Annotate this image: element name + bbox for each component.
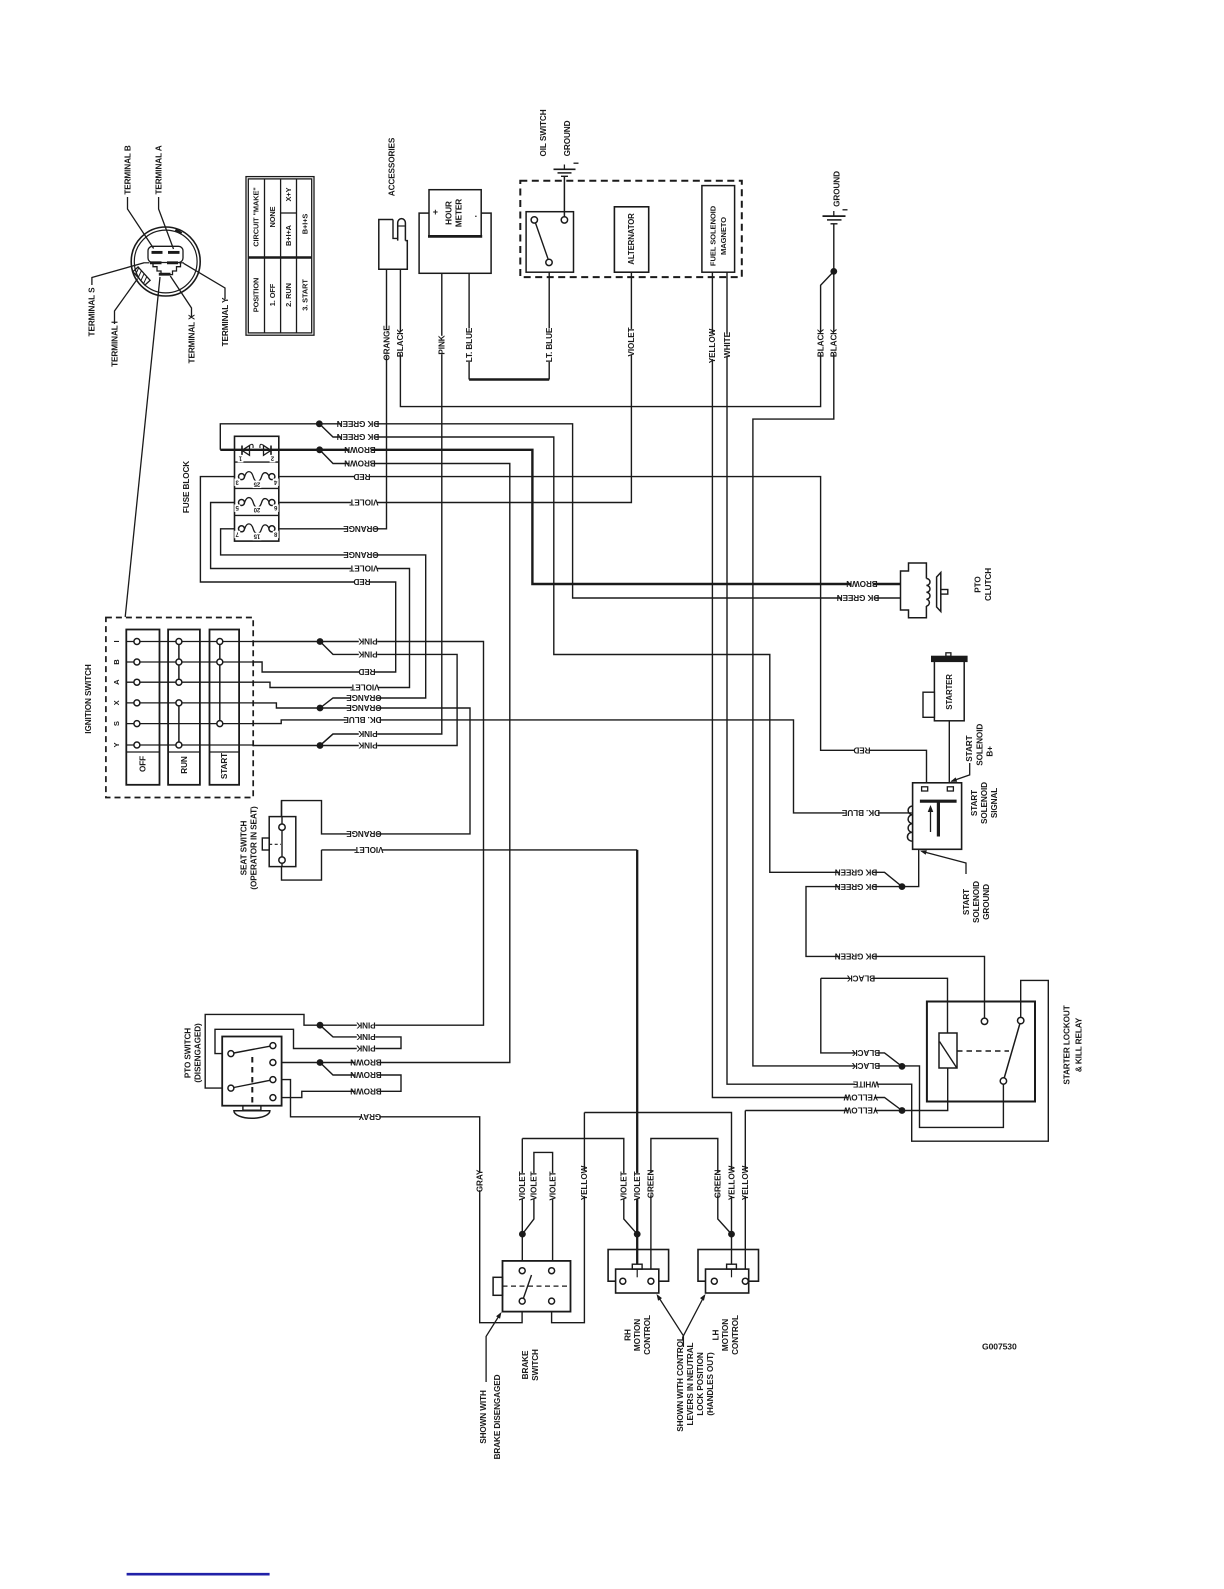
label FUEL SOLENOID MAGNETO [709,205,718,266]
label START SOLENOID SIGNAL [970,790,979,816]
wire BROWN fuse block to PTO clutch [220,450,900,584]
svg-text:BLACK: BLACK [852,1048,880,1057]
svg-text:MOTION: MOTION [721,1319,730,1351]
svg-text:HOUR: HOUR [444,201,453,225]
leader TERMINAL X [170,276,191,317]
fuse value 25 [253,480,262,488]
svg-text:VIOLET: VIOLET [354,845,383,854]
svg-text:RED: RED [353,577,370,586]
svg-text:Y: Y [112,742,121,747]
svg-text:VIOLET: VIOLET [518,1171,527,1200]
wire PINK ignition I to PTO switch [205,642,483,1089]
svg-text:(HANDLES OUT): (HANDLES OUT) [706,1352,715,1416]
svg-text:TERMINAL X: TERMINAL X [187,314,196,364]
wire BROWN PTO switch splice [273,1063,401,1098]
seat switch terminals [279,824,285,830]
junction dot DK GREEN solenoid ground [899,883,906,890]
label START [220,753,229,779]
wire YELLOW magneto to kill relay [712,272,902,1110]
ignition switch row lines [126,641,253,643]
pin 1 [238,455,244,463]
svg-text:SOLENOID: SOLENOID [975,724,984,766]
svg-text:RED: RED [853,746,870,755]
ignition switch position table [246,177,314,336]
svg-text:DK GREEN: DK GREEN [835,952,878,961]
PTO clutch coil [926,579,930,607]
svg-text:GRAY: GRAY [475,1169,484,1192]
kill relay dashed actuator link [957,1050,1009,1052]
wire DK GREEN to start solenoid ground [319,424,902,887]
svg-text:START: START [965,735,974,761]
kill relay switch arm [1004,1024,1020,1078]
svg-text:SHOWN WITH CONTROL: SHOWN WITH CONTROL [676,1336,685,1432]
wire VIOLET brake switch riser [521,1139,523,1271]
svg-text:TERMINAL Y: TERMINAL Y [221,297,230,346]
svg-text:BROWN: BROWN [344,459,376,468]
PTO clutch rotor [937,573,941,612]
svg-text:YELLOW: YELLOW [741,1165,750,1200]
table divider thick [248,256,311,259]
label ALTERNATOR [627,213,636,265]
label GROUND (battery) [832,171,841,207]
svg-text:RUN: RUN [180,756,189,774]
svg-text:YELLOW: YELLOW [708,328,717,363]
leader TERMINAL S [92,263,145,285]
svg-text:25: 25 [253,480,260,486]
svg-text:WHITE: WHITE [723,331,732,358]
wire PINK splice I to Y [253,642,457,746]
svg-text:PTO: PTO [973,576,982,593]
label START SOLENOID GROUND [962,889,971,915]
svg-text:SHOWN WITH: SHOWN WITH [479,1390,488,1444]
table text 1.OFF row [268,206,277,227]
oil pressure switch [526,212,573,273]
pin 3 [234,478,240,486]
starter motor [934,661,964,721]
wire color labels right column [846,579,878,589]
label PTO CLUTCH [973,576,982,593]
svg-text:IGNITION SWITCH: IGNITION SWITCH [84,664,93,734]
svg-text:VIOLET: VIOLET [627,327,636,356]
brake switch plunger tab [493,1277,502,1295]
wire DK GREEN fuse 1 to PTO clutch [220,424,900,598]
ignition switch key connector (rear view) [131,227,200,296]
svg-text:VIOLET: VIOLET [349,498,378,507]
svg-text:CONTROL: CONTROL [731,1315,740,1355]
pin 6 [273,504,279,512]
seat switch plunger tab [262,838,269,850]
fuse 25A [245,472,270,482]
svg-text:START: START [970,790,979,816]
svg-text:FUSE BLOCK: FUSE BLOCK [182,461,191,513]
table text 3.START row [301,214,310,235]
svg-text:BLACK: BLACK [852,1061,880,1070]
svg-text:PINK: PINK [358,741,377,750]
svg-text:PINK: PINK [356,1032,375,1041]
label PTO SWITCH (DISENGAGED) [183,1028,192,1078]
leader TERMINAL A [159,197,174,249]
LH motion control switch [698,1250,759,1282]
svg-text:PINK: PINK [438,335,447,354]
RUN terminals [176,639,182,645]
junction dot BROWN [316,446,323,453]
svg-text:OFF: OFF [139,756,148,772]
svg-text:TERMINAL S: TERMINAL S [88,287,97,337]
svg-text:VIOLET: VIOLET [349,564,378,573]
svg-text:3. START: 3. START [301,279,310,311]
svg-text:.: . [475,209,477,219]
fuse 15A [245,524,270,534]
svg-text:ORANGE: ORANGE [382,325,391,361]
engine dashed box (oil switch / alternator / magneto) [520,181,742,277]
label RH MOTION CONTROL [623,1329,632,1341]
ignition RUN column [168,630,200,785]
svg-text:CLUTCH: CLUTCH [984,568,993,601]
svg-text:BLACK: BLACK [830,329,839,357]
svg-text:ACCESSORIES: ACCESSORIES [388,137,397,196]
label START SOLENOID B+ [965,735,974,761]
svg-text:GREEN: GREEN [647,1170,656,1199]
svg-text:PINK: PINK [356,1020,375,1029]
start solenoid arrow [930,809,932,832]
svg-text:YELLOW: YELLOW [727,1165,736,1200]
junction dot BLACK ground [830,268,837,275]
svg-text:GRAY: GRAY [358,1112,381,1121]
svg-text:POSITION: POSITION [252,278,261,313]
svg-text:SEAT SWITCH: SEAT SWITCH [239,820,248,875]
START terminals [217,639,223,645]
start solenoid coil [907,806,912,841]
svg-text:LOCK POSITION: LOCK POSITION [696,1352,705,1415]
svg-text:YELLOW: YELLOW [580,1165,589,1200]
wire BROWN to PTO switch [273,450,510,1063]
hour meter housing [419,213,491,273]
svg-text:GROUND: GROUND [832,171,841,207]
table X+Y cell divider [281,212,297,214]
svg-text:BROWN: BROWN [350,1070,382,1079]
svg-text:RED: RED [353,472,370,481]
svg-text:BLACK: BLACK [847,974,875,983]
svg-text:SIGNAL: SIGNAL [990,788,999,818]
junction dot VIOLET RH [634,1231,641,1238]
svg-text:TERMINAL A: TERMINAL A [154,145,163,194]
svg-text:DK GREEN: DK GREEN [337,432,380,441]
svg-text:B+: B+ [986,746,995,757]
diode D1 [242,446,250,456]
svg-text:VIOLET: VIOLET [350,683,379,692]
label TERMINAL B [123,145,132,195]
svg-text:+: + [433,207,438,217]
svg-text:ORANGE: ORANGE [346,693,382,702]
svg-text:B: B [112,659,121,665]
svg-text:20: 20 [253,506,260,512]
junction dot YELLOW relay [899,1107,906,1114]
svg-text:B+I+A: B+I+A [284,224,293,246]
junction dot VIOLET brake [519,1231,526,1238]
brake switch box [503,1261,571,1312]
wire WHITE magneto to kill relay [727,272,1048,1141]
brake switch dashed line [503,1285,571,1287]
svg-text:PINK: PINK [358,637,377,646]
svg-text:MAGNETO: MAGNETO [719,217,728,255]
junction dot YELLOW LH [728,1231,735,1238]
svg-text:X: X [112,700,121,705]
wire VIOLET alternator to fuse 6 [272,272,632,502]
junction dot PINK PTO [317,1022,324,1029]
svg-text:VIOLET: VIOLET [530,1171,539,1200]
svg-text:BLACK: BLACK [396,329,405,357]
wire BLACK accessories to ground [400,269,833,406]
connector terminal slots (thick dashes) [152,251,163,254]
RUN contact bar X-Y [178,703,180,745]
junction dot BROWN PTO [317,1059,324,1066]
wire RED fuse 4 to start solenoid B+ [272,477,927,788]
pin 2 [270,455,276,463]
svg-text:CIRCUIT "MAKE": CIRCUIT "MAKE" [252,187,261,247]
svg-text:DK GREEN: DK GREEN [337,419,380,428]
hour meter box [429,190,481,237]
wire color labels left column [337,419,380,429]
wire color labels vertical top [382,325,392,361]
svg-text:STARTER: STARTER [945,674,954,710]
svg-text:ORANGE: ORANGE [343,550,379,559]
kill relay coil [939,1033,957,1068]
OFF terminals [134,639,140,645]
svg-text:GROUND: GROUND [982,884,991,920]
wire DK GREEN start solenoid ground to kill relay [806,849,985,1018]
label HOUR METER [444,201,453,225]
svg-text:(OPERATOR IN SEAT): (OPERATOR IN SEAT) [249,806,258,890]
svg-text:FUEL SOLENOID: FUEL SOLENOID [709,205,718,266]
svg-text:1. OFF: 1. OFF [268,283,277,306]
svg-text:SWITCH: SWITCH [531,1349,540,1381]
RH motion control terminals [620,1278,626,1284]
svg-text:PINK: PINK [358,729,377,738]
svg-text:B+I+S: B+I+S [301,214,310,235]
svg-text:ORANGE: ORANGE [346,829,382,838]
wire PINK Y to hour meter splice [320,734,333,746]
svg-text:X+Y: X+Y [284,187,293,201]
label FUSE BLOCK [182,461,191,513]
svg-text:BROWN: BROWN [344,445,376,454]
accessories connector [379,220,408,270]
svg-text:DK. BLUE: DK. BLUE [841,808,880,817]
wire BLACK ground to kill relay switch [753,224,1004,1128]
oil switch ground symbol [554,168,576,170]
svg-text:CONTROL: CONTROL [643,1315,652,1355]
oil switch ground wire [563,176,565,216]
leader TERMINAL B [128,197,154,249]
leader SHOWN WITH BRAKE DISENGAGED [486,1314,500,1383]
diode D2 [264,446,272,456]
PTO switch dashed center line [251,1057,253,1103]
pin 8 [273,530,279,538]
ignition START column [210,630,240,785]
svg-text:S: S [112,721,121,726]
oil switch terminals [531,217,537,223]
svg-text:G007530: G007530 [982,1342,1017,1352]
hour meter thick base [428,235,482,238]
label TERMINAL A [154,145,163,194]
svg-text:RH: RH [623,1329,632,1341]
svg-text:YELLOW: YELLOW [843,1093,878,1102]
wire through diode section [235,449,279,451]
svg-text:PINK: PINK [358,650,377,659]
PTO clutch body [901,563,927,618]
svg-text:VIOLET: VIOLET [548,1171,557,1200]
START contact bar I-S [219,642,221,724]
label ACCESSORIES [387,137,397,196]
junction dot DK GREEN [316,420,323,427]
svg-text:GREEN: GREEN [714,1170,723,1199]
svg-text:DK GREEN: DK GREEN [835,882,878,891]
svg-text:START: START [962,889,971,915]
kill relay terminals [981,1018,987,1024]
terminal letters I B A X S Y [112,640,121,642]
svg-text:I: I [112,640,121,642]
leader TERMINAL Y [184,263,226,299]
wire PINK PTO switch splice [215,1025,401,1053]
connector index notch [176,230,182,234]
label STARTER [945,674,954,710]
svg-text:SOLENOID: SOLENOID [980,782,989,824]
wire color labels vertical bottom [475,1169,485,1192]
label OIL SWITCH [539,109,548,156]
junction dot PINK Y [317,742,324,749]
svg-text:OIL SWITCH: OIL SWITCH [539,109,548,156]
leader TERMINAL I [115,279,138,324]
label TERMINAL I [110,321,119,367]
svg-text:DK GREEN: DK GREEN [835,868,878,877]
fuse block [235,436,279,541]
ignition switch dashed box [106,618,253,798]
svg-text:PINK: PINK [356,1044,375,1053]
label SHOWN WITH BRAKE DISENGAGED [479,1390,488,1444]
wire ORANGE accessories to fuse 8 [272,269,387,529]
svg-text:BROWN: BROWN [350,1058,382,1067]
oil switch contact arm [536,223,549,259]
wire DK. BLUE ignition S to start solenoid [253,720,912,813]
svg-text:STARTER LOCKOUT: STARTER LOCKOUT [1063,1005,1072,1084]
seat switch lower bracket [282,850,322,880]
wire PINK hour meter to ignition [320,273,442,745]
svg-text:TERMINAL B: TERMINAL B [123,145,132,195]
wire BLACK kill relay coil [821,978,948,1033]
wire VIOLET brake splice [522,1152,552,1270]
junction dot BLACK relay [899,1063,906,1070]
label OFF [139,756,148,772]
pin 4 [273,478,279,486]
starter solenoid tab [923,692,934,717]
wire VIOLET fuse 5 to ignition A [211,503,410,688]
table text 2.RUN row [284,187,293,201]
svg-text:BROWN: BROWN [350,1087,382,1096]
label RUN [180,756,189,774]
fuse value 15 [253,532,262,540]
alternator box [614,207,648,272]
table text POSITION column [252,187,261,247]
svg-text:A: A [112,679,121,685]
label LH MOTION CONTROL [711,1329,720,1340]
PTO switch box [222,1037,281,1106]
leader SHOWN WITH CONTROL LEVERS [658,1296,684,1348]
label SHOWN WITH CONTROL LEVERS IN NEUTRAL LOCK POSITION (HANDLES OUT) [676,1336,685,1432]
pin 5 [234,504,240,512]
start solenoid terminals [922,787,928,791]
PTO switch contact arm 1 [234,1046,270,1053]
wire VIOLET seat switch to RH motion control [636,850,638,1264]
leader from connector to ignition switch box [125,277,160,617]
svg-text:DK. BLUE: DK. BLUE [343,715,382,724]
svg-text:MOTION: MOTION [633,1319,642,1351]
PTO switch right terminals [270,1043,276,1049]
svg-text:RED: RED [358,667,375,676]
PTO switch contact arm 2 [234,1080,270,1087]
seat switch body [269,817,296,867]
svg-text:ORANGE: ORANGE [343,524,379,533]
connector keyway outline [148,246,183,262]
label STARTER LOCKOUT & KILL RELAY [1063,1005,1072,1084]
fuse 20A [245,498,270,508]
LH motion control terminals [711,1278,717,1284]
svg-text:WHITE: WHITE [852,1079,879,1088]
svg-text:SOLENOID: SOLENOID [972,881,981,923]
junction dot PINK I [317,638,324,645]
svg-text:ALTERNATOR: ALTERNATOR [627,213,636,265]
wire ORANGE fuse 7 to ignition X [221,529,426,708]
brake switch contact arm [523,1275,532,1300]
wire RED starter to solenoid [948,721,950,788]
footer rule [127,1573,270,1576]
svg-text:PTO SWITCH: PTO SWITCH [183,1028,192,1078]
svg-text:BLACK: BLACK [816,329,825,357]
ignition OFF column [126,630,159,785]
PTO clutch shaft [941,590,948,595]
chassis ground symbol (battery ground) [823,215,846,217]
PTO switch left terminals [228,1051,234,1057]
label SEAT SWITCH (OPERATOR IN SEAT) [239,820,248,875]
label TERMINAL X [187,314,196,364]
svg-text:YELLOW: YELLOW [843,1106,878,1115]
svg-text:DK GREEN: DK GREEN [837,593,880,602]
junction dot ORANGE [317,705,324,712]
svg-text:NONE: NONE [268,206,277,227]
pin 7 [234,530,240,538]
svg-text:VIOLET: VIOLET [633,1171,642,1200]
svg-text:2. RUN: 2. RUN [284,283,293,307]
svg-text:LT. BLUE: LT. BLUE [465,327,474,362]
wire VIOLET brake to RH motion control [522,1139,637,1235]
label BRAKE SWITCH [521,1350,530,1379]
wire RED fuse 3 to ignition B [200,477,395,672]
connector key tab (hatched) [133,267,150,285]
svg-text:BRAKE: BRAKE [521,1350,530,1379]
svg-text:VIOLET: VIOLET [620,1171,629,1200]
seat switch top lead [281,801,283,817]
RH motion control switch [608,1250,669,1282]
svg-text:BROWN: BROWN [846,579,878,588]
wire BLACK kill relay splice [821,978,902,1066]
svg-text:METER: METER [454,199,463,227]
wire VIOLET seat switch row [322,849,638,851]
wire LT. BLUE hour meter to oil switch [468,273,470,379]
kill relay box [927,1002,1035,1102]
brake switch terminals [519,1268,525,1274]
svg-text:LEVERS IN NEUTRAL: LEVERS IN NEUTRAL [686,1342,695,1425]
RUN contact bar I-A [178,642,180,683]
svg-text:BRAKE DISENGAGED: BRAKE DISENGAGED [493,1374,502,1459]
label IGNITION SWITCH [84,664,93,734]
